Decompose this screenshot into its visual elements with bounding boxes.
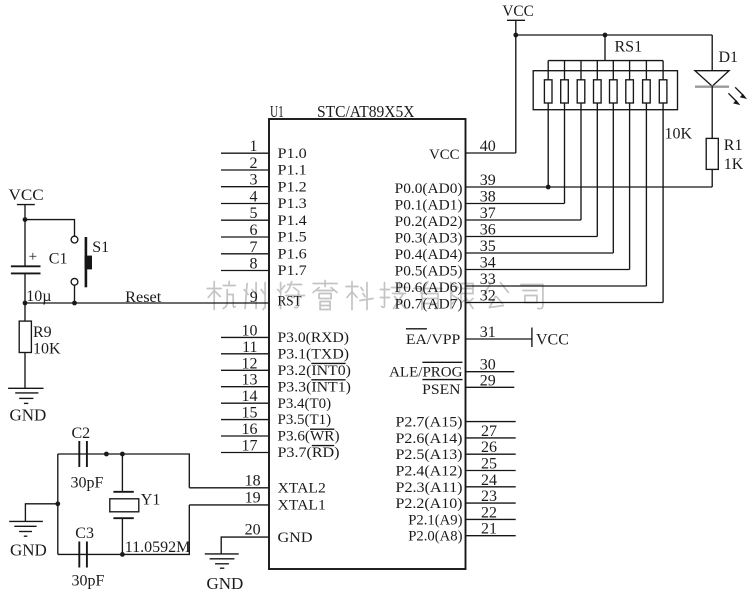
svg-text:P3.3(INT1): P3.3(INT1) xyxy=(278,379,351,395)
svg-text:20: 20 xyxy=(245,522,261,539)
node RS1-1 / P0.0 net xyxy=(546,185,551,190)
pin 32 P0.7 stub xyxy=(466,302,664,304)
svg-text:39: 39 xyxy=(480,172,496,189)
pin 5 P1.4 stub xyxy=(221,219,269,221)
pin 37 P0.2 stub xyxy=(466,219,582,221)
svg-text:10K: 10K xyxy=(33,340,61,357)
svg-text:RS1: RS1 xyxy=(615,38,643,55)
node left rail / gnd branch xyxy=(55,501,60,506)
pin 35 P0.4 stub xyxy=(466,252,614,254)
svg-text:11: 11 xyxy=(242,339,257,356)
svg-text:15: 15 xyxy=(242,405,258,422)
RS1 element 7 xyxy=(645,61,647,80)
switch S1 xyxy=(71,236,78,243)
ground symbol (R9) xyxy=(8,387,43,389)
resistor R1 xyxy=(711,86,713,138)
svg-text:37: 37 xyxy=(480,205,496,222)
svg-text:P0.5(AD5): P0.5(AD5) xyxy=(395,264,463,280)
pin 13 P3.3(INT1) stub xyxy=(221,386,269,388)
pin 25 P2.4 stub xyxy=(466,470,516,472)
node VCC/C1/S1 junction xyxy=(23,217,28,222)
svg-text:P0.6(AD6): P0.6(AD6) xyxy=(395,280,463,296)
svg-text:C2: C2 xyxy=(72,425,91,442)
pin 7 P1.6 stub xyxy=(221,253,269,255)
pin 22 P2.1 stub xyxy=(466,518,516,520)
pin 29 PSEN stub xyxy=(466,386,515,388)
pin 10 P3.0(RXD) stub xyxy=(221,336,269,338)
svg-text:P0.3(AD3): P0.3(AD3) xyxy=(395,231,463,247)
pin 15 P3.5(T1) stub xyxy=(221,419,269,421)
svg-text:P2.1(A9): P2.1(A9) xyxy=(408,512,462,528)
svg-text:P1.5: P1.5 xyxy=(278,230,307,246)
svg-text:29: 29 xyxy=(480,372,496,389)
pin 19 XTAL1 wire xyxy=(189,504,269,506)
pin 36 P0.3 stub xyxy=(466,236,598,238)
pin 38 P0.1 stub xyxy=(466,203,565,205)
pin 6 P1.5 stub xyxy=(221,236,269,238)
node S1/reset junction xyxy=(72,301,77,306)
svg-text:S1: S1 xyxy=(92,239,109,256)
svg-text:12: 12 xyxy=(242,355,258,372)
pin 27 P2.6 stub xyxy=(466,437,516,439)
RS1 element 6 xyxy=(629,61,631,80)
svg-text:+: + xyxy=(29,249,37,265)
svg-text:P3.6(WR): P3.6(WR) xyxy=(278,429,340,445)
svg-text:GND: GND xyxy=(10,406,47,425)
pin 34 P0.5 stub xyxy=(466,269,630,271)
svg-text:5: 5 xyxy=(250,205,258,222)
svg-text:13: 13 xyxy=(242,372,258,389)
svg-text:PSEN: PSEN xyxy=(422,382,460,398)
svg-text:GND: GND xyxy=(278,530,313,546)
svg-text:P1.4: P1.4 xyxy=(278,213,308,229)
pin 28 P2.7 stub xyxy=(466,421,516,423)
wire left rail xyxy=(57,454,59,554)
pin 14 P3.4(T0) stub xyxy=(221,402,269,404)
svg-text:XTAL2: XTAL2 xyxy=(278,481,326,497)
led D1 xyxy=(711,35,713,71)
VCC terminal at pin 31 xyxy=(531,328,533,348)
wire pin40 drop xyxy=(515,35,517,153)
node rail/RS1 stem xyxy=(603,33,608,38)
RS1 element 1 xyxy=(547,61,549,80)
RS1 element 5 xyxy=(612,61,614,80)
svg-text:22: 22 xyxy=(481,504,497,521)
node (extra) on top wire xyxy=(104,452,109,457)
wire XTAL2 net (top) xyxy=(58,454,190,488)
svg-text:P3.7(RD): P3.7(RD) xyxy=(278,445,340,461)
resistor network RS1 xyxy=(604,35,606,61)
svg-text:VCC: VCC xyxy=(429,147,459,163)
svg-text:P2.4(A12): P2.4(A12) xyxy=(396,464,463,480)
node C1/R9/reset junction xyxy=(23,301,28,306)
crystal Y1 xyxy=(121,454,123,492)
svg-text:18: 18 xyxy=(245,472,261,489)
resistor R9 xyxy=(24,303,26,321)
svg-text:3: 3 xyxy=(250,172,258,189)
pin 24 P2.3 stub xyxy=(466,486,516,488)
wire junction to switch branch xyxy=(25,220,75,237)
svg-text:36: 36 xyxy=(480,222,496,239)
overline WR xyxy=(310,428,334,430)
pin 18 XTAL2 wire xyxy=(189,487,269,489)
pin 30 ALE/PROG stub xyxy=(466,371,515,373)
svg-text:P1.1: P1.1 xyxy=(278,163,307,179)
svg-text:2: 2 xyxy=(250,155,258,172)
svg-text:P2.7(A15): P2.7(A15) xyxy=(396,415,463,431)
svg-text:40: 40 xyxy=(480,138,496,155)
overline EA xyxy=(406,328,427,330)
svg-text:26: 26 xyxy=(481,439,497,456)
svg-text:1: 1 xyxy=(250,138,258,155)
underline PROG xyxy=(422,379,462,381)
pin 3 P1.2 stub xyxy=(221,186,269,188)
svg-text:R9: R9 xyxy=(33,324,52,341)
svg-text:P2.6(A14): P2.6(A14) xyxy=(396,431,463,447)
RS1 element 8 xyxy=(662,61,664,80)
svg-text:27: 27 xyxy=(481,423,497,440)
svg-text:P1.7: P1.7 xyxy=(278,263,308,279)
ground symbol (crystal) xyxy=(9,520,43,522)
svg-text:VCC: VCC xyxy=(502,3,533,20)
svg-text:P1.6: P1.6 xyxy=(278,246,308,262)
svg-text:P0.4(AD4): P0.4(AD4) xyxy=(395,247,463,263)
capacitor C3 xyxy=(78,542,80,568)
svg-text:10: 10 xyxy=(242,322,258,339)
svg-text:P3.5(T1): P3.5(T1) xyxy=(278,412,332,428)
pin 16 P3.6(WR) stub xyxy=(221,435,269,437)
svg-text:P2.0(A8): P2.0(A8) xyxy=(408,529,462,545)
svg-text:C3: C3 xyxy=(75,525,94,542)
pin 26 P2.5 stub xyxy=(466,453,516,455)
svg-text:P1.0: P1.0 xyxy=(278,146,307,162)
svg-text:P1.2: P1.2 xyxy=(278,179,307,195)
svg-text:30pF: 30pF xyxy=(71,475,104,492)
RS1 element 2 xyxy=(564,61,566,80)
svg-text:7: 7 xyxy=(250,239,258,256)
pin 23 P2.2 stub xyxy=(466,502,516,504)
svg-text:11.0592M: 11.0592M xyxy=(125,539,191,556)
svg-text:P0.7(AD7): P0.7(AD7) xyxy=(395,297,463,313)
svg-text:P2.3(A11): P2.3(A11) xyxy=(396,480,463,496)
pin 40 VCC stub xyxy=(466,152,516,154)
pin 39 P0.0 stub xyxy=(466,186,713,188)
node Y1 top xyxy=(120,452,125,457)
svg-text:XTAL1: XTAL1 xyxy=(278,498,326,514)
svg-text:31: 31 xyxy=(480,324,496,341)
svg-text:D1: D1 xyxy=(719,49,739,66)
pin 4 P1.3 stub xyxy=(221,203,269,205)
svg-text:P2.2(A10): P2.2(A10) xyxy=(396,496,463,512)
svg-text:24: 24 xyxy=(481,472,497,489)
svg-text:P3.4(T0): P3.4(T0) xyxy=(278,396,332,412)
svg-text:STC/AT89X5X: STC/AT89X5X xyxy=(317,102,415,121)
wire VCC rail xyxy=(516,34,712,36)
svg-text:30pF: 30pF xyxy=(72,573,105,590)
node rail/pin40 xyxy=(513,33,518,38)
svg-text:P0.0(AD0): P0.0(AD0) xyxy=(395,181,463,197)
svg-text:GND: GND xyxy=(207,574,244,593)
overline INT1 xyxy=(311,379,345,381)
svg-text:P3.0(RXD): P3.0(RXD) xyxy=(278,330,350,346)
pin 11 P3.1(TXD) stub xyxy=(221,353,269,355)
svg-text:19: 19 xyxy=(245,489,261,506)
svg-text:35: 35 xyxy=(480,238,496,255)
capacitor C1 xyxy=(24,220,26,267)
svg-text:Reset: Reset xyxy=(125,289,162,306)
svg-text:23: 23 xyxy=(481,488,497,505)
svg-text:VCC: VCC xyxy=(536,331,569,348)
pin 33 P0.6 stub xyxy=(466,285,647,287)
svg-text:P3.1(TXD): P3.1(TXD) xyxy=(278,346,350,362)
pin 21 P2.0 stub xyxy=(466,535,516,537)
svg-text:17: 17 xyxy=(242,438,258,455)
wire XTAL1 net (bottom) xyxy=(58,505,190,555)
svg-text:14: 14 xyxy=(242,388,258,405)
svg-text:6: 6 xyxy=(250,222,258,239)
svg-text:P1.3: P1.3 xyxy=(278,196,307,212)
overline PROG xyxy=(422,361,462,363)
wire reset net to RST pin 9 xyxy=(25,302,269,304)
svg-text:P0.1(AD1): P0.1(AD1) xyxy=(395,198,463,214)
svg-text:10K: 10K xyxy=(665,125,693,142)
svg-text:P3.2(INT0): P3.2(INT0) xyxy=(278,363,351,379)
pin 1 P1.0 stub xyxy=(221,152,269,154)
svg-text:U1: U1 xyxy=(270,102,284,121)
pin 20 GND wire xyxy=(221,537,269,554)
svg-text:P0.2(AD2): P0.2(AD2) xyxy=(395,214,463,230)
ic U1 STC/AT89X5X body xyxy=(269,119,466,569)
svg-text:21: 21 xyxy=(481,521,497,538)
svg-text:38: 38 xyxy=(480,189,496,206)
watermark text 杭州将睿科技有限公司 (drawn as gray strokes) xyxy=(207,281,543,310)
RS1 element 4 xyxy=(596,61,598,80)
svg-text:GND: GND xyxy=(10,540,47,559)
svg-text:R1: R1 xyxy=(724,137,743,154)
svg-text:P2.5(A13): P2.5(A13) xyxy=(396,447,463,463)
svg-text:34: 34 xyxy=(480,255,496,272)
pin 31 EA/VPP stub xyxy=(466,338,532,340)
svg-text:Y1: Y1 xyxy=(141,492,161,509)
node Y1 bottom xyxy=(120,552,125,557)
overline INT0 xyxy=(311,362,345,364)
svg-text:C1: C1 xyxy=(49,250,68,267)
svg-text:32: 32 xyxy=(480,288,496,305)
ground symbol (pin 20) xyxy=(205,553,239,555)
svg-text:VCC: VCC xyxy=(9,187,44,204)
svg-text:1K: 1K xyxy=(724,156,744,173)
svg-text:RST: RST xyxy=(278,294,302,310)
svg-text:25: 25 xyxy=(481,456,497,473)
wire gnd branch xyxy=(25,504,57,522)
led D1 emission arrows xyxy=(728,87,747,105)
svg-text:8: 8 xyxy=(250,256,258,273)
svg-text:30: 30 xyxy=(480,357,496,374)
svg-text:ALE/PROG: ALE/PROG xyxy=(389,365,463,381)
pin 17 P3.7(RD) stub xyxy=(221,452,269,454)
pin 8 P1.7 stub xyxy=(221,270,269,272)
svg-text:16: 16 xyxy=(242,421,258,438)
RS1 element 3 xyxy=(580,61,582,80)
svg-text:33: 33 xyxy=(480,271,496,288)
svg-text:4: 4 xyxy=(250,189,258,206)
pin 2 P1.1 stub xyxy=(221,169,269,171)
svg-text:EA/VPP: EA/VPP xyxy=(406,332,460,348)
pin 12 P3.2(INT0) stub xyxy=(221,369,269,371)
overline RD xyxy=(312,445,334,447)
capacitor C2 xyxy=(78,441,80,467)
